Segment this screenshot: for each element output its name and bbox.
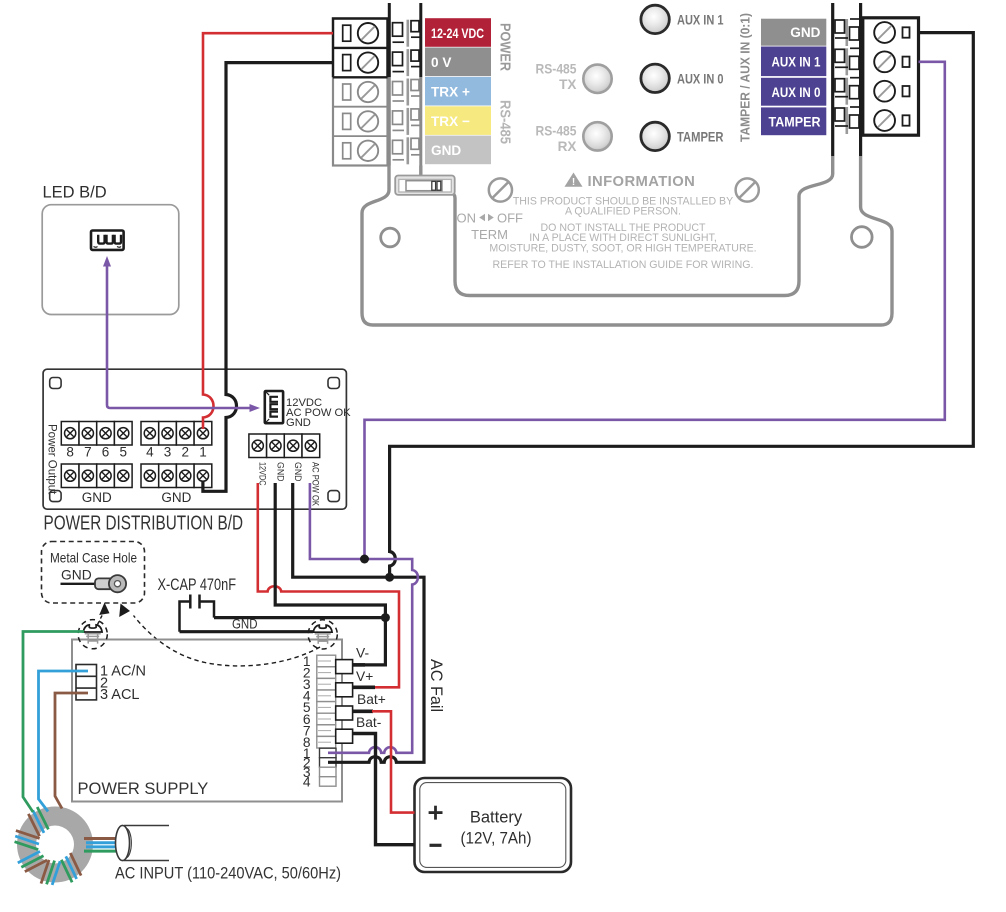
svg-text:Metal Case Hole: Metal Case Hole bbox=[50, 551, 137, 566]
cable wires (toroid to cable) bbox=[84, 837, 116, 840]
svg-text:GND: GND bbox=[82, 490, 112, 505]
AC input connector (1 AC/N, 2, 3 ACL) bbox=[76, 665, 97, 700]
wire: GND black distribution to AC Fail (pin 2) bbox=[293, 483, 424, 762]
output terminal rows bbox=[61, 422, 79, 446]
svg-text:RS-485: RS-485 bbox=[497, 100, 513, 144]
device chassis outline (gray) bbox=[362, 156, 892, 325]
svg-text:1: 1 bbox=[199, 445, 207, 460]
LED AUX IN 0 bbox=[641, 64, 669, 92]
wire: 12-24VDC red from power terminal to distribution board bbox=[203, 33, 333, 429]
svg-text:2: 2 bbox=[181, 445, 189, 460]
svg-text:12VDC: 12VDC bbox=[258, 462, 268, 486]
svg-text:3 ACL: 3 ACL bbox=[100, 687, 140, 703]
chassis screw right bbox=[736, 178, 759, 201]
svg-text:TERM: TERM bbox=[471, 227, 508, 242]
svg-text:TAMPER: TAMPER bbox=[677, 129, 724, 145]
wire: X-CAP lower GND lead to case screw bbox=[180, 630, 314, 633]
svg-text:RS-485: RS-485 bbox=[536, 62, 577, 77]
svg-text:4: 4 bbox=[146, 445, 154, 460]
chassis mounting hole left bbox=[381, 228, 400, 247]
LED TAMPER bbox=[641, 122, 669, 150]
svg-text:AC Fail: AC Fail bbox=[427, 659, 445, 712]
svg-text:GND: GND bbox=[790, 25, 820, 40]
svg-text:REFER TO THE INSTALLATION GUID: REFER TO THE INSTALLATION GUIDE FOR WIRI… bbox=[493, 259, 754, 271]
svg-text:X-CAP 470nF: X-CAP 470nF bbox=[158, 576, 237, 594]
svg-text:AUX IN 1: AUX IN 1 bbox=[772, 54, 821, 69]
svg-text:LED B/D: LED B/D bbox=[43, 184, 107, 202]
left block plug columns bbox=[388, 3, 391, 77]
svg-text:0 V: 0 V bbox=[431, 55, 451, 70]
LED RS-485 TX bbox=[583, 65, 611, 93]
svg-text:TRX +: TRX + bbox=[431, 85, 470, 100]
TAMPER/AUX signal labels bbox=[761, 19, 826, 46]
svg-text:V+: V+ bbox=[356, 669, 373, 684]
svg-text:7: 7 bbox=[84, 445, 92, 460]
svg-text:6: 6 bbox=[102, 445, 110, 460]
svg-text:TAMPER / AUX IN (0:1): TAMPER / AUX IN (0:1) bbox=[738, 13, 753, 142]
wire: green earth to PSU case screw bbox=[23, 632, 84, 813]
POWER / RS-485 signal labels bbox=[425, 18, 491, 47]
wire: Bat+ stub + red to battery + bbox=[353, 709, 373, 713]
wire: blue AC/N bbox=[39, 671, 89, 812]
toroid winding strands bbox=[24, 807, 52, 836]
svg-text:AUX IN 0: AUX IN 0 bbox=[677, 70, 724, 86]
purple link arrow: 12VDC connector to LED B/D bbox=[107, 266, 252, 408]
svg-text:POWER DISTRIBUTION B/D: POWER DISTRIBUTION B/D bbox=[44, 513, 244, 535]
svg-text:TAMPER: TAMPER bbox=[769, 114, 821, 129]
wire: X-CAP to V- junction bbox=[214, 616, 385, 619]
svg-text:A QUALIFIED PERSON.: A QUALIFIED PERSON. bbox=[565, 206, 681, 218]
LED RS-485 RX bbox=[583, 122, 611, 150]
INFORMATION warning panel bbox=[565, 173, 583, 187]
AC cable bbox=[124, 826, 169, 861]
ground lug icon bbox=[61, 583, 98, 585]
wire: GND black distribution to V- (via X-CAP node) bbox=[275, 483, 385, 665]
12VDC output connector on distribution board bbox=[265, 391, 283, 423]
svg-text:Bat-: Bat- bbox=[356, 715, 381, 730]
dashed arrow to metal case hole (from left PSU screw) bbox=[98, 614, 104, 625]
svg-text:GND: GND bbox=[61, 568, 92, 583]
svg-text:AUX IN 1: AUX IN 1 bbox=[677, 11, 724, 27]
svg-text:INFORMATION: INFORMATION bbox=[588, 174, 696, 190]
svg-text:Bat+: Bat+ bbox=[357, 692, 386, 707]
svg-text:12-24 VDC: 12-24 VDC bbox=[431, 26, 484, 41]
wire: GND black from right block down around to AC Fail junction bbox=[390, 33, 974, 578]
svg-text:AC POW OK: AC POW OK bbox=[311, 462, 321, 507]
svg-text:AUX IN 0: AUX IN 0 bbox=[772, 85, 821, 100]
svg-text:8: 8 bbox=[66, 445, 74, 460]
chassis mounting hole right bbox=[852, 227, 873, 248]
TAMPER/AUX terminal block (right) bbox=[831, 3, 834, 156]
power-in terminal block (12VDC/GND/GND/AC POW OK) bbox=[249, 434, 267, 458]
wire: AUX IN 1 purple from right block to AC POW OK node bbox=[365, 62, 945, 559]
PSU case ground screw bbox=[313, 625, 332, 632]
wire: AC POW OK purple to PSU pin 1 bbox=[310, 483, 418, 753]
svg-text:5: 5 bbox=[119, 445, 127, 460]
svg-text:TX: TX bbox=[559, 77, 576, 92]
svg-text:ON: ON bbox=[457, 210, 477, 225]
TERM switch bbox=[395, 176, 455, 195]
svg-text:TRX −: TRX − bbox=[431, 114, 470, 129]
svg-text:MOISTURE, DUSTY, SOOT, OR HIGH: MOISTURE, DUSTY, SOOT, OR HIGH TEMPERATU… bbox=[489, 243, 756, 255]
svg-text:3: 3 bbox=[164, 445, 172, 460]
junction dot: AC POW OK / AUX IN 1 bbox=[360, 555, 369, 564]
svg-text:GND: GND bbox=[161, 490, 191, 505]
svg-text:Power Output: Power Output bbox=[46, 424, 58, 495]
svg-text:Battery: Battery bbox=[470, 808, 523, 826]
wire: brown ACL bbox=[55, 693, 88, 809]
Battery (12V, 7Ah) bbox=[415, 778, 572, 872]
wire: V+ black stub bbox=[353, 685, 375, 689]
svg-text:POWER: POWER bbox=[497, 23, 513, 71]
svg-text:AC INPUT (110-240VAC, 50/60Hz): AC INPUT (110-240VAC, 50/60Hz) bbox=[115, 865, 341, 883]
svg-text:GND: GND bbox=[293, 462, 303, 482]
svg-text:GND: GND bbox=[275, 462, 285, 482]
svg-text:RX: RX bbox=[558, 139, 577, 154]
PSU output connector pins 1-8 bbox=[317, 655, 336, 667]
POWER/RS-485 terminal block (left) bbox=[333, 19, 388, 166]
svg-text:RS-485: RS-485 bbox=[536, 123, 577, 138]
svg-text:4: 4 bbox=[303, 774, 311, 789]
svg-text:GND: GND bbox=[286, 417, 311, 429]
toroid line filter bbox=[17, 807, 93, 883]
svg-text:!: ! bbox=[572, 177, 575, 188]
svg-text:GND: GND bbox=[431, 143, 461, 158]
LED AUX IN 1 bbox=[641, 5, 669, 33]
svg-text:V-: V- bbox=[356, 645, 369, 660]
svg-text:(12V, 7Ah): (12V, 7Ah) bbox=[461, 830, 532, 848]
wire: Bat- black to battery - bbox=[353, 734, 415, 845]
Metal Case Hole callout bbox=[42, 542, 145, 604]
dashed arrow to metal case hole (from right PSU screw) bbox=[134, 616, 321, 666]
chassis screw left bbox=[489, 178, 512, 201]
POWER SUPPLY unit bbox=[72, 640, 342, 802]
junction dot: X-CAP / V- bbox=[381, 613, 390, 622]
LED B/D connector CN1 bbox=[91, 231, 124, 250]
svg-text:POWER SUPPLY: POWER SUPPLY bbox=[78, 780, 209, 798]
junction dot: GND / AC Fail bbox=[385, 573, 394, 582]
wire: 12VDC red distribution to V+ bbox=[258, 483, 399, 687]
PSU signal connector pins 1-4 bbox=[320, 748, 337, 758]
svg-text:OFF: OFF bbox=[497, 210, 523, 225]
wire: 0V black from power terminal to distribution board GND bbox=[203, 63, 333, 492]
PSU case ground screw bbox=[83, 625, 102, 632]
POWER DISTRIBUTION B/D board bbox=[43, 369, 346, 509]
wire: V- black stub bbox=[353, 663, 365, 667]
